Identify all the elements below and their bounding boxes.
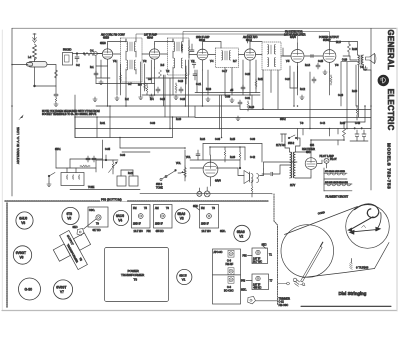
svg-text:R-13: R-13 [206,89,212,91]
svg-text:T5: T5 [144,207,147,210]
resistor right margin [356,106,358,120]
svg-text:V5: V5 [67,217,71,221]
svg-text:SEC: SEC [73,226,78,229]
wire input bus [73,53,103,55]
chassis border top hatch [5,200,268,202]
svg-text:VOL: VOL [186,157,191,159]
ground g5 [99,80,103,84]
svg-text:SW-2: SW-2 [288,142,295,145]
svg-text:FILAMENT CIRCUIT: FILAMENT CIRCUIT [326,196,349,199]
svg-text:R-11: R-11 [258,79,264,81]
trimmer sec pentagon [73,219,97,236]
svg-text:TONE: TONE [88,187,95,189]
tube socket 6AU6 V8 [16,212,33,229]
svg-text:V-4: V-4 [210,61,214,63]
svg-text:C-39: C-39 [250,139,256,141]
wire tone bus [56,148,96,168]
tube socket G-30 [19,278,41,300]
capacitor C5 stack [54,86,58,106]
svg-text:T-2: T-2 [166,71,170,73]
svg-text:V6: V6 [20,256,24,260]
resistor cluster under V2 [146,70,162,95]
svg-text:T-8: T-8 [300,123,304,125]
svg-text:R-25: R-25 [230,139,236,141]
terminal circle before V1 [94,52,98,56]
audio det rect [190,144,262,163]
resistor r detector load [251,180,253,197]
IF transformer T1 dashed box [121,38,143,82]
svg-text:R-22: R-22 [128,173,134,175]
tube socket 6AU6 V4 [113,210,128,225]
svg-text:C-7: C-7 [128,84,132,86]
svg-text:V1: V1 [182,277,186,281]
discriminator transformer [262,42,281,70]
ground g2 [149,94,153,98]
antenna coil [33,44,37,60]
capacitor C15 [179,87,183,93]
wire h segments under tubes [96,66,260,95]
svg-text:MODELS 752-753: MODELS 752-753 [387,143,392,189]
svg-text:C-25: C-25 [318,61,324,63]
tube socket 6V6GT V7 [53,280,72,299]
schematic top frame [12,27,396,29]
switch SW1 box [61,168,84,186]
ground g4 [93,97,97,101]
svg-text:V8: V8 [21,221,25,225]
svg-text:6X4: 6X4 [310,145,315,147]
svg-text:6BA6: 6BA6 [237,230,245,234]
svg-text:C-28: C-28 [342,60,348,62]
svg-text:10.7 MC: 10.7 MC [134,230,143,233]
filter caps [350,127,368,141]
tube socket 6BA6 V3 [175,209,190,224]
svg-text:T9: T9 [96,223,99,226]
svg-text:R-10: R-10 [249,107,255,109]
wire chassis-top long [140,193,272,195]
svg-text:C-16: C-16 [180,99,186,101]
svg-text:T6: T6 [166,207,169,210]
tube V4 detector [244,43,255,70]
IF box FM T5 [132,205,151,234]
resistor R2 [84,53,94,56]
svg-text:C-17: C-17 [222,71,228,73]
filament circuit rows [324,168,352,199]
wire T1 to V2 [142,53,149,55]
svg-text:6T8: 6T8 [67,212,73,216]
tube V3 2nd IF [197,44,208,70]
label antenna in ac line [16,115,24,165]
svg-text:G-30: G-30 [25,287,33,291]
IF box AM T6 [147,205,173,234]
resistor R2 [119,73,121,83]
wire AVC bus right [202,106,240,109]
label 2nd IF [196,36,210,42]
svg-text:V-6: V-6 [335,65,339,67]
svg-text:117V: 117V [290,185,296,187]
svg-text:C-31: C-31 [245,98,251,100]
svg-text:SW-1: SW-1 [55,149,61,151]
tube V5 AF amp [291,43,304,72]
wire V1 to T1 [113,53,121,55]
wire V5 to V6 [304,55,323,57]
ground g12 [300,95,304,99]
wire pickup to transformer [262,165,290,176]
junction dots [107,105,109,107]
svg-text:BLU: BLU [336,41,341,44]
volume control pot [176,162,186,181]
svg-text:2ND IF: 2ND IF [133,223,141,226]
pilot lamps bottom [197,187,210,197]
note text [42,110,100,116]
svg-text:SEC: SEC [193,205,198,208]
resistor R9 [247,101,249,111]
ground g8 [236,116,240,120]
chassis border right dashed [274,194,278,305]
ground g11 [363,66,367,70]
capacitor C26 [316,63,320,69]
trimmer pentagon C12 [248,297,256,304]
svg-text:SEC.: SEC. [241,289,247,292]
ground g6 [115,96,119,100]
svg-text:PILOT: PILOT [330,159,337,161]
svg-text:C-19: C-19 [245,74,251,76]
wire B+ top right [364,65,372,128]
capacitor C14 [156,87,160,93]
svg-text:C-24: C-24 [285,79,291,81]
dial pointer needle [301,242,323,282]
svg-text:ANTENNA IN A.C. LINE: ANTENNA IN A.C. LINE [16,127,20,164]
ground g10 [323,70,327,74]
label rectifier [302,148,315,154]
svg-text:Dial Stringing: Dial Stringing [339,291,367,296]
ratio det transformer [216,48,239,68]
switch SW1 arm [48,173,55,183]
tube socket 6V6GT V6 [13,246,31,264]
svg-text:R-7: R-7 [233,61,237,63]
svg-text:6 TURNS: 6 TURNS [356,266,368,270]
svg-text:10.7 MC: 10.7 MC [253,261,262,264]
antenna loopstick [27,62,48,68]
svg-text:6T8 6BA6 6AU6 6BE6: 6T8 6BA6 6AU6 6BE6 [325,170,346,173]
svg-text:T8: T8 [134,277,138,281]
svg-text:6V6 6V6 6BC5 6BA6 6X4: 6V6 6V6 6BC5 6BA6 6X4 [325,181,349,184]
svg-text:C-38: C-38 [215,139,221,141]
svg-text:TONE: TONE [156,186,163,189]
ground g1 [139,95,143,99]
svg-text:C-45: C-45 [355,123,361,125]
label converter [101,34,125,40]
label trimmer C12 [256,298,290,307]
tube V7 6AV6 circle mid [203,155,221,186]
wire V2 to T2 [160,53,168,55]
component cluster x182 [181,44,194,53]
svg-text:C-15: C-15 [160,99,166,101]
svg-text:6V6GT: 6V6GT [56,286,66,290]
tone area extra [70,140,103,168]
GE logo [378,75,389,86]
capacitor C3 [94,71,98,77]
svg-text:C-35: C-35 [105,149,111,151]
IF box FM T3 [193,205,226,234]
wire V4 to disc [256,54,262,56]
tube V1 converter [102,44,112,66]
wire loop verticals [75,106,195,138]
box phono jack [63,53,73,66]
svg-text:SW-2: SW-2 [280,119,286,121]
svg-text:6AV6: 6AV6 [290,36,296,39]
tube V6 output [323,42,336,73]
resistor det cluster A [188,40,190,58]
dial cord around shaft [350,204,381,231]
svg-text:6AV6: 6AV6 [215,180,221,183]
wire left bus lower [11,106,13,196]
svg-text:10.7 MC: 10.7 MC [202,230,211,233]
wire main B bus [75,128,371,130]
wire T2 to V3 [189,54,197,56]
B plus line det [240,70,371,110]
oscillator box T9 [88,207,108,232]
svg-text:FM: FM [201,207,205,210]
wire V3 to det [208,54,216,56]
dial cord bottom run [303,243,389,278]
dial drum circle [281,225,334,278]
svg-text:ELECTRIC: ELECTRIC [386,89,395,131]
wire x75 extension [74,95,76,117]
capacitor det cluster B [192,60,196,68]
svg-text:PRI: PRI [243,255,247,258]
svg-text:R-31: R-31 [100,123,106,125]
power transformer schematic [290,152,296,178]
tone switch contacts [156,170,176,190]
svg-text:R-1: R-1 [90,67,94,69]
label pri bottom [100,197,127,202]
tube V2 1st IF [149,44,159,68]
wire rect connections [296,152,323,178]
svg-text:C-2: C-2 [76,65,80,67]
wire det to audio [120,138,185,167]
svg-text:455 KC: 455 KC [156,230,164,233]
capacitor cluster under V3 [185,66,197,84]
svg-text:FM: FM [133,207,137,210]
svg-text:R-18: R-18 [352,49,358,51]
tuning gang C6 C8 [213,249,241,304]
svg-text:C-33: C-33 [150,123,156,125]
svg-text:FM-OSC: FM-OSC [279,304,289,307]
label 1st IF [144,34,157,40]
wire det to V4 [239,54,245,56]
output transformer T5 [358,55,364,65]
svg-text:L-2: L-2 [28,57,32,59]
label AF amp [284,31,306,40]
wires under V5 V6 [290,62,359,129]
left frame wire [11,28,13,106]
wire AVC bus [96,105,202,107]
wire power drops [298,122,345,152]
output transformer T5 rotated [49,225,99,276]
svg-text:R-30: R-30 [340,123,346,125]
audio components cluster [196,147,241,169]
ground g13 [47,182,51,186]
svg-text:C-42: C-42 [250,157,256,159]
svg-text:V7: V7 [60,290,64,294]
svg-text:R-3: R-3 [138,85,142,87]
svg-text:T7: T7 [270,280,273,283]
phono pickup symbol [244,169,264,184]
capacitor C22 [238,100,242,106]
svg-text:T3: T3 [212,207,215,210]
wire B+ bus [75,116,195,118]
speaker [366,54,377,64]
capacitor coupling [311,55,313,58]
svg-text:C-21: C-21 [196,84,202,86]
resistor R6 [175,83,177,93]
svg-text:T1: T1 [269,254,272,257]
svg-text:R-14: R-14 [305,65,311,67]
svg-text:OSC.: OSC. [89,209,95,212]
label det [243,36,258,42]
svg-text:V-2: V-2 [143,61,147,63]
svg-text:C-13: C-13 [178,81,184,83]
power transformer box [105,248,169,302]
svg-text:C-44: C-44 [320,123,326,125]
svg-text:R-28: R-28 [176,119,182,121]
svg-text:.05: .05 [230,90,234,92]
wire disc to V5 [281,55,291,57]
page edge right [396,28,398,311]
IF box T1 [243,244,273,264]
ground g3 [174,95,178,99]
svg-text:C-30: C-30 [225,97,231,99]
svg-text:PRI (BOTTOM): PRI (BOTTOM) [101,198,122,202]
svg-text:AM: AM [155,207,159,210]
AC plug and switch [276,134,297,147]
svg-text:SEC.: SEC. [220,230,226,233]
svg-text:6BE6: 6BE6 [100,43,106,45]
svg-text:C-1: C-1 [90,51,94,53]
svg-text:6AU6: 6AU6 [19,217,27,221]
svg-text:2ND IF: 2ND IF [201,223,209,226]
svg-text:R-4: R-4 [150,99,154,101]
svg-text:117V AC: 117V AC [276,144,286,147]
cord spring left [293,278,305,286]
svg-text:R-26: R-26 [230,157,236,159]
svg-text:V-1: V-1 [113,61,117,63]
tube V8 rectifier [305,152,317,176]
antenna mast arrows [33,34,37,43]
capacitor C40 [86,156,90,162]
page edge left [1,30,3,310]
resistor R8 [255,79,257,89]
svg-text:V2: V2 [239,234,243,238]
wire mid vertical x75 down [74,117,76,138]
wire audio path [122,147,245,168]
wire loop bottom [75,137,173,139]
dial cord top run [285,207,358,235]
svg-text:617 KC: 617 KC [93,229,101,232]
tube socket 6T8 V5 [62,207,79,224]
svg-text:C-9: C-9 [148,79,152,81]
wire det out [238,162,297,176]
svg-text:R-2: R-2 [125,99,129,101]
wire antenna drop [12,58,35,87]
svg-text:6AU6: 6AU6 [116,214,124,218]
wire cluster under V2 [141,60,189,129]
svg-text:PRI: PRI [241,280,245,283]
svg-text:VOL: VOL [176,162,182,165]
svg-text:2ND IF: 2ND IF [155,223,163,226]
wire cluster under V1 [96,56,121,95]
svg-text:6BE6: 6BE6 [103,36,110,39]
tone cap boxes [117,170,138,186]
svg-text:C-36: C-36 [120,155,126,157]
svg-text:GENERAL: GENERAL [386,30,395,71]
dial area bottom line [301,305,391,307]
wire ac to transformer [285,138,300,152]
IF transformer T2 dashed box [168,38,190,75]
svg-text:PILOT LAMP: PILOT LAMP [320,155,335,158]
wire disc drops [248,35,296,109]
resistor R20 [80,165,90,167]
svg-text:C-29: C-29 [338,95,344,97]
svg-text:SOCKET TERMINALS TO B-. NO SIG: SOCKET TERMINALS TO B-. NO SIGNAL INPUT. [42,113,97,116]
tone pot cluster [96,155,118,174]
wire antenna to input [35,65,57,87]
wire cluster under V3/V4 [195,60,260,138]
cord arrow segment [347,225,381,234]
resistor R15 [330,75,332,85]
svg-text:PRI: PRI [147,230,151,233]
wire tube drops [108,66,330,106]
capacitor C1 [75,54,79,63]
top connection wires [108,32,330,49]
svg-text:R-5: R-5 [161,65,165,67]
dial small pulley bottom left [278,282,289,285]
IF box T7 [241,274,273,292]
wire right verticals [344,28,371,190]
capacitor C27 [312,77,316,83]
svg-text:6V6GT: 6V6GT [16,251,26,255]
capacitor C41 [92,156,96,162]
page edge bottom [2,310,396,312]
svg-text:V4: V4 [118,219,122,223]
svg-text:V3: V3 [180,217,184,221]
wire v5 grid [283,48,291,56]
resistor R1 [55,70,58,78]
wire output to speaker [330,41,358,60]
svg-text:6X4: 6X4 [306,151,311,154]
ground g7 [206,97,210,101]
svg-text:V-5: V-5 [286,61,290,63]
capacitor C20 [241,85,245,91]
pilot lamp power [320,155,335,168]
wire terminal [97,53,102,55]
cord spring right [350,259,353,270]
svg-text:PHONO: PHONO [63,50,72,52]
chassis border left hatch [6,203,8,307]
svg-text:R-12: R-12 [300,89,306,91]
svg-text:FM-RF: FM-RF [226,263,234,266]
svg-text:BC-OSC: BC-OSC [224,289,234,292]
tube socket 6BC5 V1 [177,269,192,284]
svg-text:R-24: R-24 [200,139,206,141]
svg-text:455 KC: 455 KC [253,287,261,290]
ground g9 [230,98,234,102]
resistor screen [348,42,351,57]
svg-text:CORD: CORD [318,211,326,215]
resistor R4 [144,81,146,91]
svg-text:6BA6: 6BA6 [147,36,154,39]
label power output [319,36,339,42]
